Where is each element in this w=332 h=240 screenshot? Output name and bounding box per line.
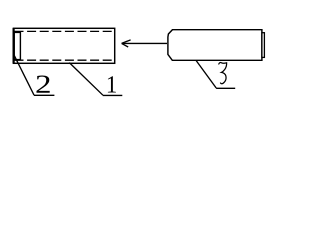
- tube left edge thick: [13, 28, 15, 63]
- arrow head upper barb: [122, 40, 131, 43]
- underline of label 1: [103, 94, 123, 96]
- cap (part 2) small rectangle inside tube left end: [14, 32, 20, 59]
- arrow head lower barb: [122, 43, 129, 47]
- arrow shaft: [122, 42, 167, 44]
- label 2 digit: [36, 76, 49, 93]
- label 3 digit (handwritten style): [219, 62, 227, 83]
- cap left edge thick: [13, 32, 15, 60]
- leader line to label 2: [14, 56, 34, 96]
- dashed inner line top: [15, 30, 115, 32]
- leader line to label 3: [196, 61, 216, 88]
- tube body (part 1) outer rectangle: [13, 28, 114, 63]
- underline of label 3: [216, 87, 235, 89]
- label 1 digit: [108, 76, 116, 92]
- dashed inner line bottom: [15, 59, 115, 61]
- underline of label 2: [34, 94, 55, 96]
- cylinder rim at right end: [262, 33, 265, 58]
- leader line to label 1: [69, 63, 103, 96]
- cylinder (part 3) body with chamfered left nose: [168, 30, 262, 61]
